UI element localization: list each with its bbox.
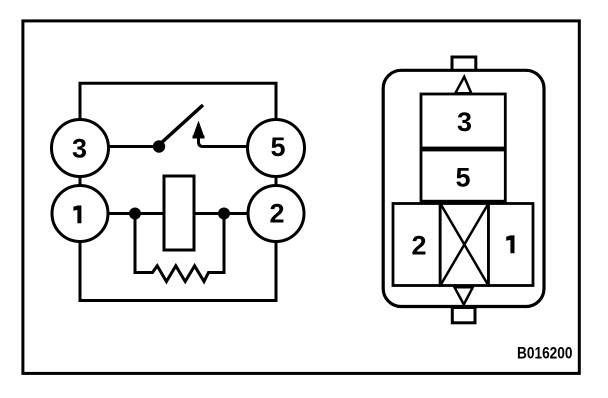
svg-text:3: 3 (457, 107, 472, 137)
svg-text:5: 5 (270, 132, 285, 162)
svg-text:B016200: B016200 (517, 344, 573, 363)
svg-text:5: 5 (455, 163, 470, 193)
svg-text:2: 2 (411, 231, 426, 261)
svg-text:2: 2 (269, 199, 284, 229)
svg-text:3: 3 (72, 134, 87, 164)
